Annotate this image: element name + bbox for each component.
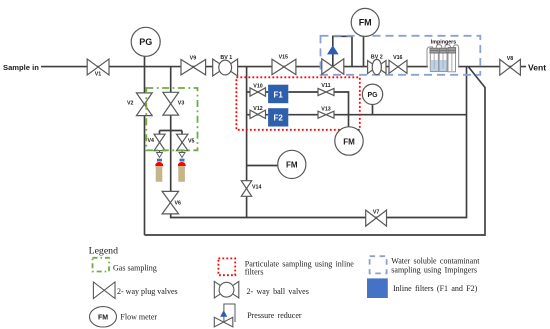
svg-text:2- way ball valves: 2- way ball valves	[247, 287, 309, 296]
svg-text:V9: V9	[190, 55, 197, 61]
svg-text:V2: V2	[127, 101, 134, 107]
svg-text:BV 2: BV 2	[371, 54, 383, 60]
svg-text:PG: PG	[367, 92, 378, 99]
svg-text:V4: V4	[148, 138, 155, 144]
svg-text:filters: filters	[245, 267, 264, 276]
svg-text:FM: FM	[286, 160, 298, 169]
svg-text:2- way plug valves: 2- way plug valves	[117, 287, 178, 296]
svg-text:sampling using Impingers: sampling using Impingers	[391, 265, 477, 274]
svg-text:BV 1: BV 1	[220, 55, 232, 61]
svg-text:V13: V13	[321, 106, 330, 112]
svg-text:Vent: Vent	[528, 63, 546, 73]
svg-text:FM: FM	[343, 137, 355, 146]
svg-text:V11: V11	[321, 83, 330, 89]
svg-text:V3: V3	[178, 101, 185, 107]
svg-text:Inline filters (F1 and F2): Inline filters (F1 and F2)	[393, 284, 478, 293]
svg-text:PG: PG	[139, 37, 152, 47]
svg-text:V7: V7	[373, 209, 380, 215]
svg-text:V1: V1	[95, 71, 102, 77]
svg-text:V16: V16	[393, 55, 402, 61]
svg-text:Gas sampling: Gas sampling	[113, 264, 157, 273]
svg-text:V6: V6	[175, 201, 182, 207]
svg-text:Sample in: Sample in	[3, 63, 39, 72]
svg-text:FM: FM	[98, 315, 108, 322]
svg-text:V12: V12	[253, 106, 262, 112]
svg-text:Impingers: Impingers	[431, 40, 456, 46]
svg-text:Pressure reducer: Pressure reducer	[247, 311, 302, 320]
svg-text:V8: V8	[507, 56, 514, 62]
svg-text:F2: F2	[274, 114, 284, 123]
svg-text:V15: V15	[279, 55, 288, 61]
svg-text:V10: V10	[253, 83, 262, 89]
svg-text:Legend: Legend	[89, 246, 118, 257]
svg-text:V5: V5	[188, 139, 195, 145]
svg-text:F1: F1	[274, 90, 284, 99]
svg-text:Water soluble contaminant: Water soluble contaminant	[391, 257, 480, 266]
svg-text:V14: V14	[252, 185, 261, 191]
svg-text:FM: FM	[359, 18, 372, 28]
svg-text:Flow meter: Flow meter	[120, 312, 157, 321]
